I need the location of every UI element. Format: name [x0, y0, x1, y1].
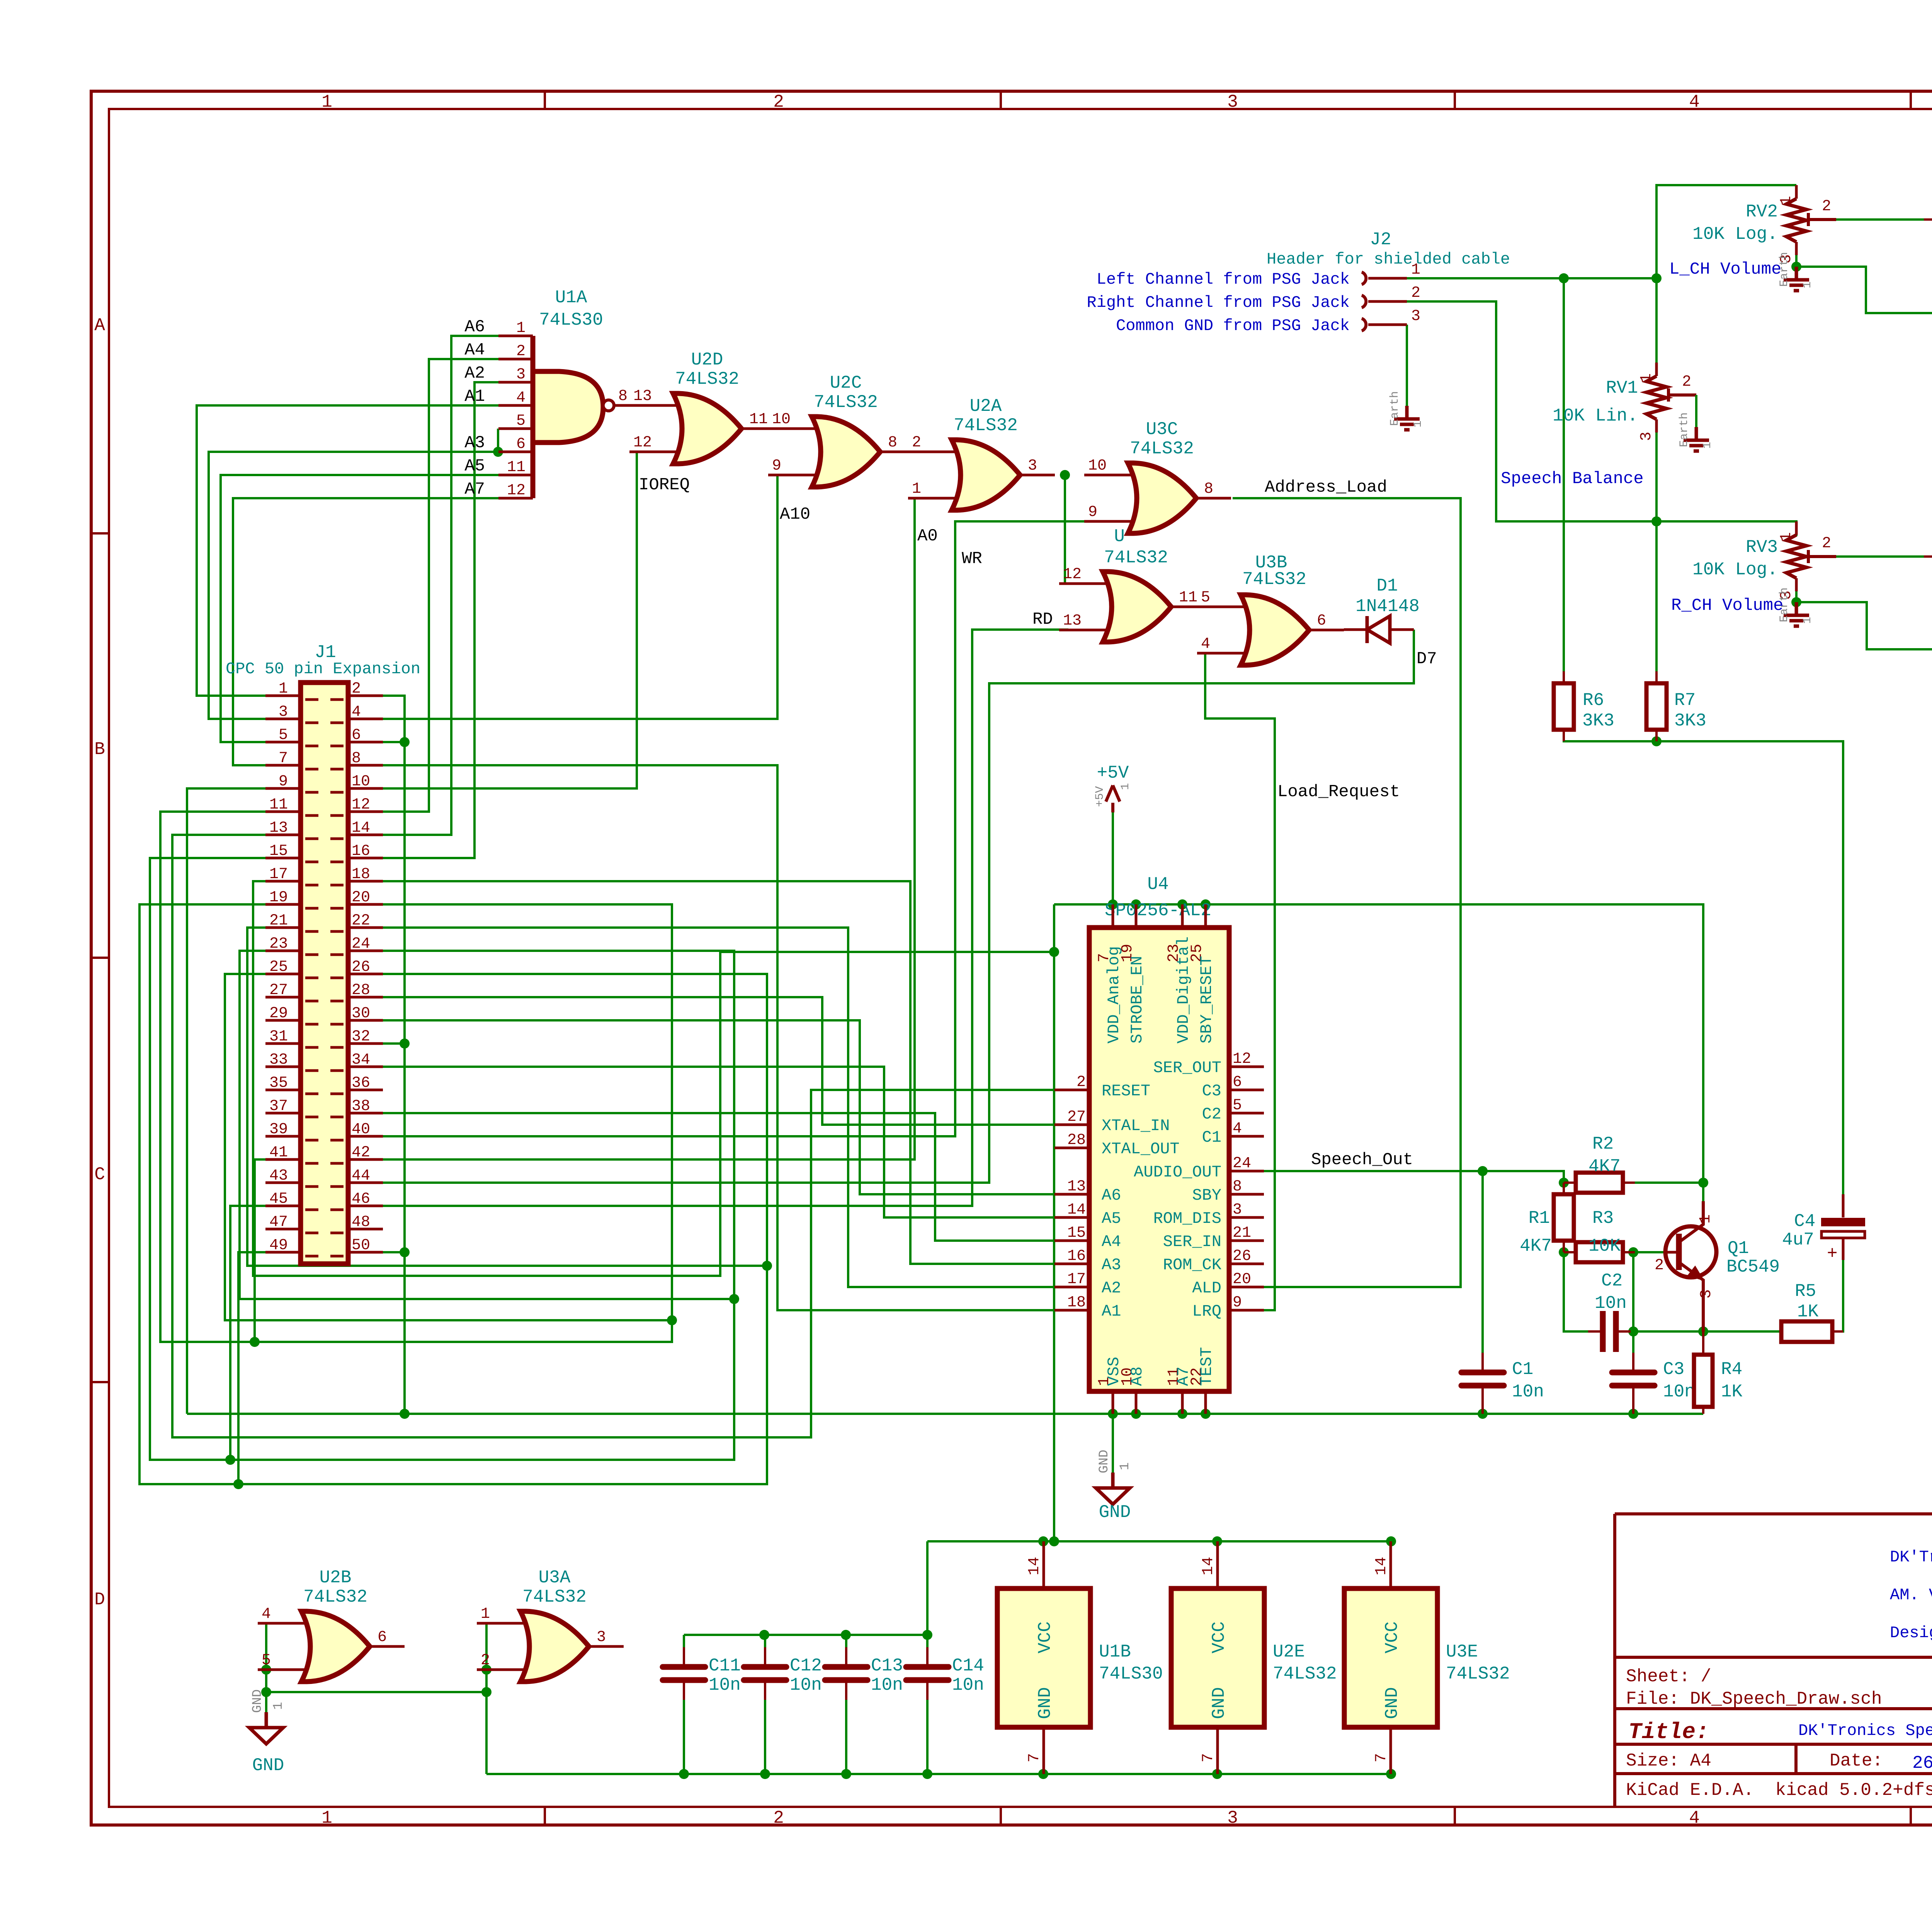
svg-text:9: 9 [772, 457, 781, 475]
svg-text:6: 6 [378, 1629, 387, 1646]
potentiometer RV3 [1795, 521, 1798, 535]
svg-text:A0: A0 [917, 526, 938, 546]
connector J1 pin 11 [265, 812, 318, 815]
wire U2B tie to U3A tie [266, 1691, 486, 1693]
wire C12 top stub wire [764, 1635, 766, 1647]
connector J1 pin 44 [330, 1183, 383, 1187]
capacitor C13 plates [825, 1664, 867, 1670]
U4 pin 22 TEST [1204, 1391, 1207, 1414]
svg-text:7: 7 [279, 750, 288, 767]
C2 left pin [1588, 1330, 1600, 1333]
svg-text:1: 1 [321, 92, 332, 112]
svg-text:10K Log.: 10K Log. [1692, 224, 1778, 244]
R5 right pin [1832, 1330, 1843, 1333]
svg-text:2: 2 [1682, 373, 1691, 391]
svg-text:8: 8 [618, 388, 628, 405]
svg-text:11: 11 [749, 411, 768, 428]
wire GND rail U4 [187, 1413, 1703, 1415]
svg-text:2: 2 [912, 434, 921, 451]
svg-text:4u7: 4u7 [1782, 1230, 1814, 1250]
wire C12 bottom stub wire [764, 1700, 766, 1774]
svg-text:1: 1 [1412, 421, 1425, 427]
svg-text:Left Channel from PSG Jack: Left Channel from PSG Jack [1097, 270, 1350, 289]
svg-text:RV1: RV1 [1606, 378, 1638, 398]
svg-text:ALD: ALD [1192, 1279, 1221, 1297]
svg-text:10: 10 [1088, 457, 1107, 475]
wire +5V west link to J1 pin 27 [253, 881, 1054, 1276]
svg-text:74LS32: 74LS32 [1104, 548, 1168, 568]
wire C1 bottom to GND rail [1481, 1396, 1484, 1414]
svg-text:18: 18 [352, 866, 370, 883]
wire net A10 J1 pin4 to U2C pin9 [383, 475, 812, 719]
junction GND rail junctions [400, 737, 410, 747]
wire R6 R7 bottom run to C4 column [1564, 730, 1843, 1194]
svg-text:1: 1 [481, 1605, 490, 1623]
connector J1 pin 35 [265, 1090, 318, 1094]
wire GND rail riser to J1 pin 9 [187, 788, 265, 1414]
svg-text:3: 3 [1227, 1808, 1238, 1828]
svg-text:10n: 10n [1512, 1382, 1544, 1402]
R1 bottom pin [1563, 1241, 1565, 1252]
svg-text:C3: C3 [1663, 1359, 1684, 1379]
svg-text:13: 13 [633, 388, 652, 405]
wire net A5 J1 pin5 to U1A pin11 [221, 475, 498, 742]
svg-text:R_CH Volume: R_CH Volume [1671, 596, 1783, 615]
svg-text:10n: 10n [871, 1675, 903, 1695]
wire net Address_Load U3C out to U4 ALD [1233, 498, 1461, 1287]
connector J1 pin 38 [330, 1113, 383, 1117]
connector J1 pin 9 [265, 788, 318, 792]
svg-text:24: 24 [1233, 1155, 1251, 1172]
connector J1 pin 3 [265, 719, 318, 723]
svg-text:A2: A2 [1102, 1279, 1121, 1297]
R7 bottom pin [1655, 730, 1658, 741]
wire Q1 collector node to pin [1702, 1183, 1704, 1201]
svg-text:U3E: U3E [1446, 1642, 1478, 1662]
power symbol GND under U4 [1096, 1473, 1130, 1504]
resistor R7 body [1646, 683, 1667, 730]
connector J1 pin 20 [330, 904, 383, 908]
junction cap top wire junctions [759, 1630, 769, 1640]
svg-text:A: A [94, 315, 105, 335]
wire net RST J1 pin13 to U4 RESET [172, 835, 1054, 1437]
C11 top pin [683, 1647, 685, 1664]
svg-text:Common GND from PSG Jack: Common GND from PSG Jack [1116, 317, 1350, 335]
wire net D1 J1 pin22 to U4 A2 [383, 928, 1054, 1287]
svg-text:4: 4 [516, 389, 526, 407]
wire C11 top stub wire [683, 1635, 685, 1647]
R3 right pin [1623, 1251, 1635, 1253]
connector J1 pin 1 [265, 696, 318, 700]
border row ticks [91, 532, 1932, 535]
gate U3C 74LS32 OR [1084, 475, 1139, 521]
wire net A1 J1 pin1 to U1A pin4 [197, 405, 498, 696]
svg-text:Earth: Earth [1678, 412, 1691, 447]
svg-text:6: 6 [1317, 612, 1326, 630]
svg-text:1: 1 [912, 480, 921, 498]
wire J1 pin6 GND join [383, 741, 405, 743]
svg-text:C2: C2 [1202, 1105, 1221, 1124]
C1 top pin [1481, 1353, 1484, 1370]
svg-text:47: 47 [269, 1214, 288, 1231]
wire base node drop to C3 [1632, 1252, 1634, 1364]
wire J1 pin41 spur [255, 1159, 265, 1342]
svg-text:1: 1 [271, 1702, 286, 1710]
wire net IOREQ J1 pin10 to U2D pin12 [383, 452, 641, 788]
svg-text:28: 28 [352, 982, 370, 999]
U4 pin 14 A5 [1054, 1216, 1089, 1219]
svg-text:Speech Balance: Speech Balance [1501, 469, 1644, 489]
junction R_CH junction [1651, 516, 1662, 526]
wire J1 pin2 GND drop [383, 696, 405, 1414]
wire RV2 wiper to C5 [1836, 218, 1932, 221]
connector J1 pin 25 [265, 974, 318, 978]
svg-text:+: + [1827, 1244, 1838, 1264]
U4 pin 10 A8 [1135, 1391, 1138, 1414]
U3D output pin 11 [1171, 606, 1206, 608]
capacitor C1 plates [1461, 1370, 1504, 1376]
svg-text:SER_IN: SER_IN [1163, 1233, 1221, 1251]
svg-text:36: 36 [352, 1074, 370, 1092]
svg-text:Load_Request: Load_Request [1277, 782, 1400, 802]
C2 right pin [1619, 1330, 1631, 1333]
U4 pin 13 A6 [1054, 1193, 1089, 1196]
connector J1 pin 17 [265, 881, 318, 885]
svg-text:4: 4 [352, 703, 361, 721]
svg-text:14: 14 [1026, 1557, 1043, 1575]
svg-text:21: 21 [1233, 1224, 1251, 1242]
capacitor C4 4u7 polarized [1842, 1194, 1845, 1217]
IC U1B power unit body [997, 1588, 1090, 1727]
svg-text:8: 8 [352, 750, 361, 767]
svg-text:A3: A3 [1102, 1256, 1121, 1274]
junction Speech_Out junctions [1478, 1166, 1488, 1176]
svg-text:74LS32: 74LS32 [1273, 1664, 1337, 1684]
resistor R2 body [1576, 1173, 1623, 1193]
svg-text:40: 40 [352, 1121, 370, 1138]
C12 bottom pin [764, 1683, 766, 1700]
svg-text:74LS32: 74LS32 [675, 369, 739, 389]
svg-text:A7: A7 [464, 480, 485, 499]
svg-text:2: 2 [1655, 1257, 1664, 1274]
svg-text:23: 23 [269, 935, 288, 953]
svg-text:3K3: 3K3 [1582, 711, 1614, 731]
U4 pin 9 LRQ [1229, 1309, 1264, 1312]
wire net A3 J1 pin3 to U1A pin6 [209, 452, 498, 719]
connector J1 pin 37 [265, 1113, 318, 1117]
U4 pin 18 A1 [1054, 1309, 1089, 1312]
svg-text:2: 2 [516, 343, 526, 360]
svg-text:4: 4 [1201, 635, 1210, 653]
U4 pin 24 AUDIO_OUT [1229, 1170, 1264, 1173]
capacitor C2 plates [1600, 1311, 1606, 1352]
wire U2B tie to GND arrow [265, 1692, 267, 1712]
U1B pin 7 GND [1043, 1727, 1045, 1774]
svg-text:10: 10 [772, 411, 791, 428]
U4 pin 21 SER_IN [1229, 1239, 1264, 1242]
U2D output pin 11 [742, 427, 776, 430]
svg-text:5: 5 [262, 1652, 271, 1669]
svg-text:1: 1 [516, 320, 526, 337]
connector J1 pin 50 [330, 1252, 383, 1256]
connector J1 pin 43 [265, 1183, 318, 1187]
svg-text:2: 2 [1822, 198, 1831, 215]
connector J1 pin 47 [265, 1229, 318, 1233]
svg-text:9: 9 [1088, 504, 1097, 521]
junction GND bottom rail junctions [679, 1769, 689, 1779]
wire R5 right to C4 [1832, 1239, 1843, 1331]
connector J1 pin 14 [330, 835, 383, 839]
wire net CK4 J1 pin28 to U4 XTAL_IN [383, 997, 1054, 1125]
border column ticks [544, 91, 546, 1825]
svg-text:8: 8 [888, 434, 897, 451]
svg-text:3: 3 [1698, 1289, 1715, 1299]
wire C14 top stub wire [926, 1635, 929, 1647]
svg-text:14: 14 [1373, 1557, 1390, 1575]
svg-text:Title:: Title: [1628, 1720, 1709, 1745]
svg-text:Address_Load: Address_Load [1265, 478, 1387, 497]
connector J1 pin 23 [265, 951, 318, 955]
gate U3D 74LS32 OR [1059, 584, 1114, 630]
svg-text:10: 10 [352, 773, 370, 790]
capacitor C14 plates [906, 1664, 949, 1670]
connector J1 pin 16 [330, 858, 383, 862]
svg-text:U1B: U1B [1099, 1642, 1131, 1662]
svg-text:10K Log.: 10K Log. [1692, 560, 1778, 580]
svg-text:U2D: U2D [691, 350, 723, 370]
svg-text:R1: R1 [1529, 1208, 1550, 1228]
U2E pin 7 GND [1216, 1727, 1219, 1774]
wire net A3 spur to U1A pin5 [497, 429, 499, 452]
svg-text:10K Lin.: 10K Lin. [1553, 406, 1638, 426]
svg-text:1: 1 [1118, 1462, 1133, 1470]
U4 pin 20 ALD [1229, 1286, 1264, 1289]
wire net A4 J1 pin12 to U1A pin2 [383, 359, 498, 812]
wire J1 pin32 GND join [383, 1042, 405, 1045]
resistor R5 body [1781, 1321, 1832, 1342]
svg-text:74LS30: 74LS30 [1099, 1664, 1163, 1684]
wire C11 bottom stub wire [683, 1700, 685, 1774]
U4 pin 19 STROBE_EN [1135, 904, 1138, 928]
svg-text:A5: A5 [1102, 1209, 1121, 1228]
connector J1 pin 29 [265, 1020, 318, 1024]
connector J1 pin 36 [330, 1090, 383, 1094]
wire L_CH drop to RV1 [1655, 278, 1658, 363]
svg-text:3: 3 [516, 366, 526, 383]
junction VCC rail junctions [1038, 1536, 1048, 1546]
svg-text:D: D [94, 1590, 105, 1610]
svg-text:49: 49 [269, 1237, 288, 1254]
U2A output pin 3 [1020, 474, 1055, 477]
potentiometer RV2 [1795, 185, 1798, 199]
svg-text:29: 29 [269, 1005, 288, 1022]
gate U2B 74LS32 OR [258, 1623, 312, 1670]
svg-text:R5: R5 [1795, 1281, 1816, 1301]
svg-text:ROM_CK: ROM_CK [1163, 1256, 1222, 1274]
wire net A2 J1 pin16 to U1A pin3 [383, 382, 498, 858]
U4 pin 5 C2 [1229, 1112, 1264, 1115]
connector J1 pin 21 [265, 928, 318, 931]
R4 top pin [1702, 1331, 1704, 1355]
svg-text:GND: GND [1035, 1687, 1055, 1719]
svg-text:3: 3 [1411, 308, 1420, 325]
svg-text:1: 1 [1411, 261, 1420, 279]
svg-text:C4: C4 [1794, 1211, 1815, 1231]
svg-text:Sheet: /: Sheet: / [1626, 1667, 1711, 1687]
svg-text:2: 2 [1822, 535, 1831, 552]
capacitor C12 plates [744, 1664, 786, 1670]
svg-text:11: 11 [507, 459, 526, 476]
svg-text:32: 32 [352, 1028, 370, 1045]
resistor R1 body [1554, 1194, 1574, 1241]
wire R7 bottom to run [1655, 730, 1658, 741]
svg-text:14: 14 [1200, 1557, 1217, 1575]
svg-text:4: 4 [1689, 92, 1700, 112]
svg-text:20: 20 [352, 889, 370, 906]
svg-text:26: 26 [1233, 1248, 1251, 1265]
U3E pin 7 GND [1389, 1727, 1392, 1774]
svg-text:D7: D7 [1417, 649, 1437, 669]
svg-text:3: 3 [279, 703, 288, 721]
svg-text:14: 14 [1067, 1201, 1086, 1219]
svg-text:2: 2 [352, 680, 361, 698]
C1 bottom pin [1481, 1388, 1484, 1414]
svg-text:SBY_RESET: SBY_RESET [1197, 956, 1216, 1044]
svg-text:15: 15 [269, 843, 288, 860]
C5 left pin [1924, 218, 1932, 221]
svg-text:1N4148: 1N4148 [1355, 596, 1420, 616]
wire J1 pin49 spur [238, 1252, 265, 1484]
capacitor C3 plates [1612, 1370, 1655, 1376]
svg-text:25: 25 [269, 958, 288, 976]
resistor R6 body [1554, 683, 1574, 730]
C13 bottom pin [845, 1683, 847, 1700]
U1A pin 4 [498, 404, 533, 407]
svg-text:1K: 1K [1721, 1382, 1743, 1402]
svg-text:C: C [94, 1165, 105, 1185]
svg-text:74LS32: 74LS32 [954, 415, 1018, 436]
svg-text:A8: A8 [1128, 1367, 1146, 1386]
U2E pin 14 VCC [1216, 1541, 1219, 1588]
svg-text:11: 11 [1179, 589, 1197, 606]
svg-text:6: 6 [352, 727, 361, 744]
wire RV3 pin3 to junction [1795, 589, 1798, 602]
wire +5V left drop to VCC rail [1053, 904, 1055, 1541]
svg-text:RV2: RV2 [1746, 202, 1778, 222]
wire net D5 J1 pin30 to U4 A6 [383, 1020, 1054, 1194]
svg-text:3: 3 [1028, 457, 1037, 475]
svg-text:7: 7 [1200, 1753, 1217, 1762]
svg-text:19: 19 [269, 889, 288, 906]
svg-text:1: 1 [279, 680, 288, 698]
svg-text:24: 24 [352, 935, 370, 953]
wire J1 pin21 link to pin26 column [247, 928, 767, 1266]
RV1 wiper pin 2 [1668, 388, 1696, 402]
svg-text:L_CH Volume: L_CH Volume [1669, 260, 1781, 279]
svg-text:45: 45 [269, 1190, 288, 1208]
C14 top pin [926, 1647, 929, 1664]
connector J1 pin 19 [265, 904, 318, 908]
svg-text:2: 2 [1411, 284, 1420, 302]
wire decoupling cap top wire [684, 1634, 927, 1636]
svg-text:5: 5 [1233, 1097, 1242, 1114]
svg-text:RD: RD [1032, 610, 1053, 629]
capacitor C11 plates [663, 1664, 705, 1670]
svg-text:A4: A4 [1102, 1233, 1121, 1251]
svg-text:LRQ: LRQ [1192, 1302, 1221, 1321]
wire J1 pin15-pin24-pin45 link [150, 858, 734, 1460]
R2 right pin [1623, 1182, 1635, 1184]
svg-text:GND: GND [1209, 1687, 1229, 1719]
wire C2 left drop [1564, 1252, 1595, 1331]
C6 left pin [1924, 555, 1932, 558]
svg-text:C12: C12 [790, 1656, 822, 1676]
svg-text:1: 1 [1697, 1214, 1714, 1224]
svg-text:AM. V2. SPEECH (ROMLESS versio: AM. V2. SPEECH (ROMLESS version) [1890, 1586, 1932, 1604]
svg-text:TEST: TEST [1197, 1347, 1216, 1386]
connector J1 pin 6 [330, 742, 383, 746]
svg-text:1: 1 [1638, 373, 1655, 383]
svg-text:13: 13 [269, 819, 288, 837]
RV2 wiper pin 2 [1808, 213, 1836, 226]
svg-text:RESET: RESET [1102, 1082, 1150, 1100]
svg-text:U3C: U3C [1146, 419, 1178, 439]
wire net D0 J1 pin8 to U4 A1 [383, 765, 1054, 1310]
wire net D4 J1 pin34 to U4 A5 [383, 1067, 1054, 1217]
diode D1 1N4148 [1344, 628, 1414, 631]
wire R1 bottom node [1563, 1206, 1565, 1229]
svg-text:A1: A1 [464, 387, 485, 406]
junction RV3 bottom junction [1791, 597, 1801, 607]
junction U2B U3A tie junctions [261, 1665, 271, 1675]
U4 pin 1 VSS [1112, 1391, 1114, 1414]
svg-text:7: 7 [1373, 1753, 1390, 1762]
connector J1 pin 42 [330, 1159, 383, 1163]
wire RV1 pin3 to R_CH node [1655, 427, 1658, 521]
svg-text:U1A: U1A [555, 288, 587, 308]
IC U3E power unit body [1344, 1588, 1437, 1727]
wire R3 right to Q1 base [1635, 1251, 1665, 1253]
svg-text:12: 12 [352, 796, 370, 814]
junction +5V rail junctions [1108, 899, 1118, 909]
wire J1 pin45 spur [230, 1206, 265, 1460]
U4 pin 12 SER_OUT [1229, 1066, 1264, 1068]
svg-text:10n: 10n [1663, 1382, 1695, 1402]
connector J1 pin 2 [330, 696, 383, 700]
svg-text:26: 26 [352, 958, 370, 976]
R4 bottom pin [1702, 1407, 1704, 1414]
svg-text:34: 34 [352, 1051, 370, 1069]
U4 pin 6 C3 [1229, 1089, 1264, 1091]
connector J2 pin 3 [1362, 318, 1366, 331]
svg-text:C13: C13 [871, 1656, 903, 1676]
svg-text:30: 30 [352, 1005, 370, 1022]
svg-text:DK'Tronics Speech Synthesizer: DK'Tronics Speech Synthesizer for Amstra… [1798, 1721, 1932, 1740]
svg-text:C14: C14 [952, 1656, 984, 1676]
junction A3 wire junction [493, 447, 503, 457]
svg-text:GND: GND [1099, 1502, 1131, 1522]
svg-text:C1: C1 [1202, 1128, 1221, 1147]
svg-text:KiCad E.D.A. kicad 5.0.2+dfsg: KiCad E.D.A. kicad 5.0.2+dfsg1-1+deb10u1 [1626, 1780, 1932, 1800]
gate U1A 74LS30 8-input NAND [533, 371, 603, 443]
svg-text:A10: A10 [780, 505, 810, 524]
svg-text:1: 1 [1801, 281, 1814, 288]
svg-text:21: 21 [269, 912, 288, 930]
U1A pin 11 [498, 474, 533, 477]
svg-text:11: 11 [269, 796, 288, 814]
connector J1 pin 4 [330, 719, 383, 723]
gate U3B 74LS32 OR [1197, 607, 1252, 653]
